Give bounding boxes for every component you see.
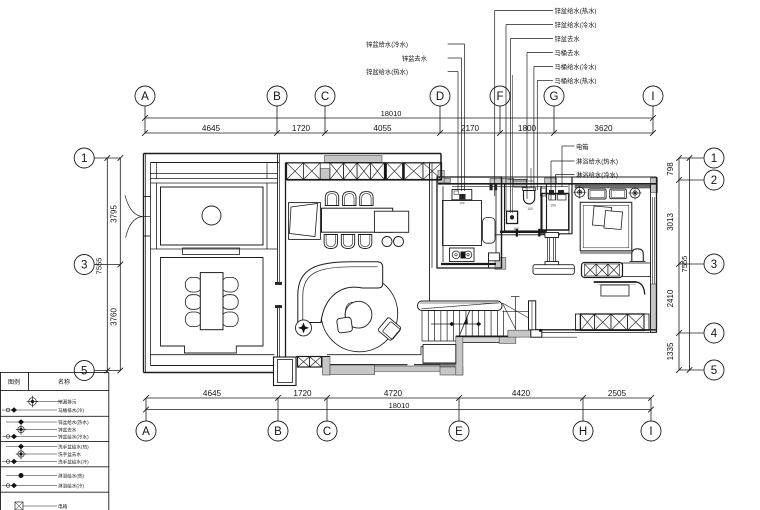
svg-text:100: 100: [527, 207, 533, 211]
svg-text:3760: 3760: [110, 308, 119, 326]
svg-text:锌盆去水: 锌盆去水: [58, 427, 77, 434]
svg-text:4055: 4055: [373, 124, 392, 133]
svg-text:5: 5: [711, 365, 717, 377]
svg-text:1720: 1720: [293, 389, 312, 398]
svg-text:G: G: [550, 91, 559, 103]
svg-text:锌盆给水(热水): 锌盆给水(热水): [555, 6, 597, 15]
svg-text:798: 798: [666, 162, 675, 176]
svg-text:锌盆去水: 锌盆去水: [402, 54, 428, 63]
svg-text:锌盆给水(冷水): 锌盆给水(冷水): [555, 20, 597, 29]
svg-text:C: C: [321, 91, 329, 103]
svg-text:4645: 4645: [203, 389, 222, 398]
svg-text:1: 1: [711, 153, 717, 165]
svg-text:3620: 3620: [594, 124, 613, 133]
svg-text:名称: 名称: [58, 378, 70, 386]
svg-text:18010: 18010: [389, 401, 410, 410]
svg-text:7555: 7555: [95, 258, 104, 275]
svg-text:马桶给水(热水): 马桶给水(热水): [555, 76, 597, 85]
svg-text:2170: 2170: [461, 124, 480, 133]
svg-text:淋浴给水(冷水): 淋浴给水(冷水): [576, 170, 618, 179]
svg-text:B: B: [274, 426, 282, 438]
svg-text:马桶排水(冷): 马桶排水(冷): [58, 407, 84, 414]
svg-text:A: A: [142, 426, 150, 438]
svg-text:1720: 1720: [292, 124, 311, 133]
svg-text:3: 3: [711, 259, 717, 271]
svg-text:I: I: [651, 91, 654, 103]
svg-text:淋浴给水(热): 淋浴给水(热): [58, 473, 84, 480]
svg-text:4720: 4720: [384, 389, 403, 398]
svg-text:地漏排污: 地漏排污: [58, 399, 77, 406]
svg-text:锌盆给水(热水): 锌盆给水(热水): [58, 419, 89, 426]
svg-text:3: 3: [81, 260, 87, 272]
svg-text:淋浴给水(热水): 淋浴给水(热水): [576, 156, 618, 165]
svg-text:锌盆去水: 锌盆去水: [555, 34, 581, 43]
svg-text:F: F: [496, 91, 503, 103]
svg-text:100: 100: [550, 204, 556, 208]
svg-text:马桶去水: 马桶去水: [555, 48, 581, 57]
svg-text:A: A: [141, 91, 149, 103]
svg-text:1: 1: [81, 153, 87, 165]
svg-text:E: E: [455, 426, 463, 438]
svg-text:2410: 2410: [666, 289, 675, 307]
svg-text:马桶给水(冷水): 马桶给水(冷水): [555, 62, 597, 71]
svg-text:7555: 7555: [680, 256, 689, 273]
svg-text:100: 100: [513, 227, 519, 231]
svg-text:锌盆给水(冷水): 锌盆给水(冷水): [366, 40, 408, 49]
svg-text:3795: 3795: [110, 205, 119, 223]
svg-text:图例: 图例: [8, 378, 20, 386]
svg-text:2: 2: [711, 175, 717, 187]
svg-text:电箱: 电箱: [576, 142, 589, 151]
svg-text:18010: 18010: [381, 109, 402, 118]
svg-text:电箱: 电箱: [58, 503, 68, 510]
svg-text:洗手盆给水(冷): 洗手盆给水(冷): [58, 459, 89, 466]
svg-text:洗手盆去水: 洗手盆去水: [58, 451, 81, 458]
svg-text:锌盆给水(冷水): 锌盆给水(冷水): [58, 434, 89, 441]
svg-text:H: H: [579, 426, 587, 438]
svg-text:锌盆给水(热水): 锌盆给水(热水): [366, 67, 408, 76]
svg-text:4645: 4645: [202, 124, 221, 133]
svg-text:1335: 1335: [666, 342, 675, 360]
svg-text:淋浴给水(冷): 淋浴给水(冷): [58, 483, 84, 490]
svg-text:2505: 2505: [608, 389, 627, 398]
svg-text:I: I: [649, 426, 652, 438]
svg-text:D: D: [436, 91, 444, 103]
svg-text:100: 100: [459, 201, 464, 205]
svg-text:B: B: [273, 91, 281, 103]
svg-text:4420: 4420: [512, 389, 531, 398]
svg-text:4: 4: [711, 328, 718, 340]
svg-text:5: 5: [81, 366, 87, 378]
svg-text:洗手盆给水(热): 洗手盆给水(热): [58, 444, 89, 451]
svg-text:3013: 3013: [666, 213, 675, 231]
svg-text:C: C: [323, 426, 331, 438]
